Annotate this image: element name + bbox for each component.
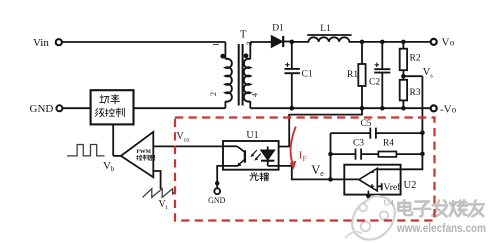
svg-text:Vref: Vref: [384, 182, 402, 193]
block power-stage-control: [91, 90, 134, 124]
svg-text:U1: U1: [246, 130, 258, 141]
node -Vo terminal: [431, 105, 437, 111]
LED inside U1: [267, 147, 269, 151]
wire PWM input Vt: [153, 171, 160, 189]
svg-text:1: 1: [212, 43, 221, 47]
svg-text:R1: R1: [347, 70, 358, 80]
capacitor C5: [331, 132, 371, 134]
node GND terminal: [56, 105, 62, 111]
svg-text:U2: U2: [404, 180, 417, 191]
wire bottom rail: [250, 107, 430, 109]
wire Vs to error amp: [403, 75, 422, 77]
junction D1-C1-L1: [290, 40, 295, 45]
wire block to transformer pin2: [134, 107, 226, 109]
light arrows: [252, 150, 257, 155]
node Vs junction: [401, 74, 406, 79]
svg-text:GND: GND: [208, 196, 226, 205]
svg-text:V: V: [311, 163, 320, 177]
svg-text:o: o: [452, 104, 457, 114]
phototransistor Q1: [223, 145, 237, 147]
wire Vin to transformer pin1: [62, 41, 226, 43]
svg-text:www.elecfans.com: www.elecfans.com: [396, 222, 486, 235]
junction R3 bottom: [401, 106, 406, 111]
wire emitter to GND: [217, 166, 237, 188]
svg-text:C2: C2: [369, 78, 380, 88]
svg-text:PWM: PWM: [136, 149, 151, 155]
junction R2 top: [401, 40, 406, 45]
wire L1 to +Vo rail: [352, 41, 431, 43]
capacitor C1: [291, 42, 293, 69]
wire pin3 to D1: [250, 41, 271, 43]
svg-text:V: V: [103, 160, 111, 172]
resistor R4: [378, 152, 396, 157]
C2 plus sign: [375, 64, 379, 66]
svg-text:s: s: [430, 73, 433, 80]
wire inverting input: [377, 168, 423, 170]
inductor L1: [292, 37, 352, 42]
wire -Vo rail to LED anode: [279, 108, 362, 146]
waveform square-wave Vb: [67, 145, 105, 156]
optocoupler U1 box: [223, 141, 279, 170]
Vref source: [377, 185, 381, 187]
watermark elecfans logo and text: [352, 196, 395, 240]
feedback loop dashed boundary: [175, 118, 435, 221]
capacitor C2: [381, 42, 383, 69]
svg-text:L1: L1: [320, 24, 331, 34]
junction C2 top: [380, 40, 385, 45]
diode D1: [272, 36, 283, 47]
svg-text:T: T: [240, 30, 247, 41]
transformer T primary winding pin1-pin2: [224, 42, 226, 59]
svg-text:t: t: [166, 204, 168, 211]
junction Ve feedback left: [328, 177, 333, 182]
svg-text:U4: U4: [384, 198, 395, 208]
svg-text:V: V: [442, 37, 450, 49]
svg-text:F: F: [303, 155, 307, 163]
ground arrow of Vref: [367, 191, 369, 196]
junction L1-R1: [360, 40, 365, 45]
wire LED cathode to Ve: [268, 166, 359, 180]
transformer T secondary winding pin3-pin4: [249, 42, 251, 59]
svg-text:C1: C1: [302, 70, 313, 80]
resistor R2: [402, 42, 404, 49]
svg-text:o: o: [450, 38, 455, 48]
junction R4 right: [420, 152, 425, 157]
polarity dot secondary: [244, 53, 249, 58]
waveform sawtooth Vt: [143, 189, 176, 198]
node Vin terminal: [56, 39, 62, 45]
svg-text:co: co: [184, 136, 190, 143]
svg-text:Vin: Vin: [33, 37, 49, 49]
wire block to PWM apex node Vb: [112, 124, 114, 155]
current arrow IF: [291, 127, 296, 163]
svg-text:D1: D1: [272, 24, 284, 34]
C1 plus sign: [285, 64, 289, 66]
junction C5 right: [420, 130, 425, 135]
svg-text:b: b: [111, 165, 115, 173]
polarity dot primary: [220, 54, 225, 59]
ground GND of opto: [214, 188, 220, 194]
junction C2 bottom: [380, 106, 385, 111]
resistor R1: [361, 42, 363, 64]
U1 value label optocoupler: [250, 173, 258, 181]
comparator PWM controller: [121, 132, 153, 177]
svg-text:2: 2: [209, 92, 218, 96]
op-amp U2 box: [344, 165, 400, 195]
capacitor C3: [331, 153, 356, 155]
transformer core: [238, 44, 240, 106]
svg-text:R2: R2: [410, 54, 421, 64]
wire feedback left riser: [330, 133, 332, 179]
svg-text:GND: GND: [30, 103, 54, 115]
junction C3 left: [328, 152, 333, 157]
svg-text:R4: R4: [383, 138, 394, 148]
op-amp U2 triangle: [359, 168, 377, 191]
svg-text:4: 4: [251, 93, 260, 97]
svg-text:C3: C3: [353, 138, 364, 148]
wire PWM output Vco to optocoupler: [153, 145, 223, 147]
wire GND to power stage block: [62, 107, 90, 109]
resistor R3: [402, 76, 404, 80]
svg-text:-V: -V: [440, 103, 452, 115]
svg-text:e: e: [320, 169, 324, 178]
junction C1 bottom: [290, 106, 295, 111]
svg-text:R3: R3: [410, 88, 421, 98]
node +Vo terminal: [431, 39, 437, 45]
svg-text:C5: C5: [360, 119, 371, 129]
junction R1 bottom: [360, 106, 365, 111]
